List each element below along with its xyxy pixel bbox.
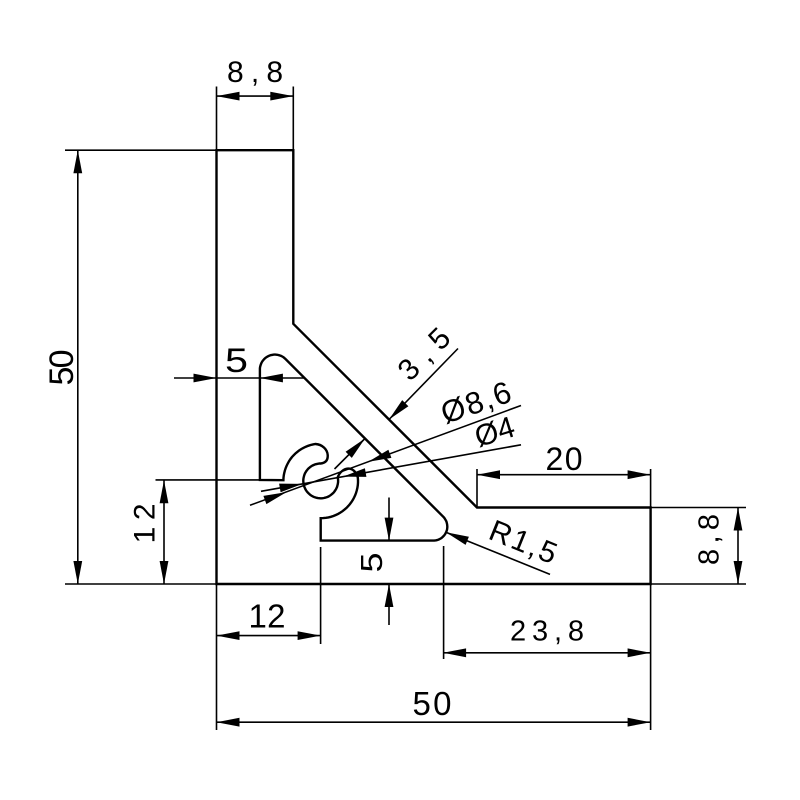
svg-text:50: 50 — [43, 350, 81, 386]
svg-text:8,8: 8,8 — [694, 514, 726, 565]
dimension 8,8 top — [217, 56, 294, 150]
part outer outline — [217, 150, 651, 584]
dimension 20 — [477, 441, 651, 508]
cavity with screw boss — [260, 355, 447, 541]
leader diameter 4 — [261, 411, 521, 493]
dimension 12 bottom — [217, 547, 321, 730]
svg-text:23,8: 23,8 — [510, 616, 584, 648]
dimension 8,8 right — [651, 508, 746, 585]
leader R1,5 fillet — [446, 514, 562, 574]
leader diameter 8,6 — [250, 374, 521, 505]
dimension 5 wall thickness — [174, 342, 304, 382]
dimension 12 left — [128, 480, 260, 584]
leader 3,5 rib thickness — [335, 322, 459, 469]
svg-text:20: 20 — [546, 441, 583, 477]
dimension 5 step height — [354, 498, 393, 626]
svg-text:5: 5 — [225, 342, 248, 380]
svg-text:5: 5 — [354, 553, 389, 573]
svg-text:12: 12 — [249, 598, 286, 635]
svg-text:8,8: 8,8 — [227, 56, 283, 89]
dimension 50 left — [43, 150, 217, 584]
dimension 50 bottom — [217, 584, 651, 730]
dimension 23,8 — [443, 546, 650, 659]
